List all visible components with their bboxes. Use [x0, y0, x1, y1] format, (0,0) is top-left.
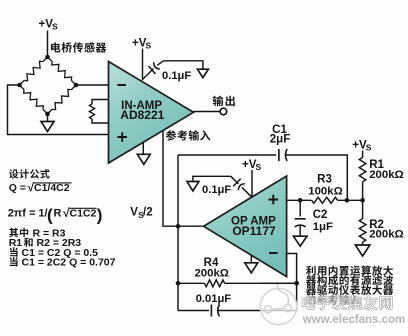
svg-text:/2: /2 — [143, 207, 153, 219]
svg-text:(: ( — [47, 205, 53, 224]
svg-text:S: S — [366, 143, 372, 153]
svg-text:C1 = 2C2 Q = 0.707: C1 = 2C2 Q = 0.707 — [22, 257, 116, 269]
svg-text:2μF: 2μF — [270, 134, 290, 146]
svg-text:R: R — [54, 208, 62, 220]
svg-text:0.1μF: 0.1μF — [162, 70, 191, 82]
svg-text:C1C2: C1C2 — [70, 208, 97, 220]
svg-text:S: S — [145, 41, 151, 51]
svg-text:R1: R1 — [9, 237, 23, 249]
svg-text:): ) — [97, 205, 103, 224]
svg-text:200kΩ: 200kΩ — [194, 267, 228, 279]
svg-text:AD8221: AD8221 — [120, 108, 164, 122]
svg-text:OP1177: OP1177 — [232, 224, 276, 238]
svg-text:www.elecfans.com: www.elecfans.com — [302, 314, 405, 326]
svg-text:S: S — [255, 162, 261, 172]
svg-text:1μF: 1μF — [313, 221, 333, 233]
svg-text:V: V — [130, 207, 138, 219]
svg-text:C1/4C2: C1/4C2 — [34, 182, 70, 194]
svg-text:R3: R3 — [317, 173, 332, 185]
svg-text:Q =: Q = — [9, 182, 26, 194]
svg-text:200kΩ: 200kΩ — [369, 169, 403, 181]
svg-text:100kΩ: 100kΩ — [308, 186, 342, 198]
svg-text:S: S — [52, 22, 58, 32]
svg-text:0.1μF: 0.1μF — [202, 184, 231, 196]
svg-text:200kΩ: 200kΩ — [369, 228, 403, 240]
svg-text:2πf = 1/: 2πf = 1/ — [8, 208, 48, 220]
svg-text:C2: C2 — [313, 209, 328, 221]
svg-text:0.01μF: 0.01μF — [196, 293, 232, 305]
